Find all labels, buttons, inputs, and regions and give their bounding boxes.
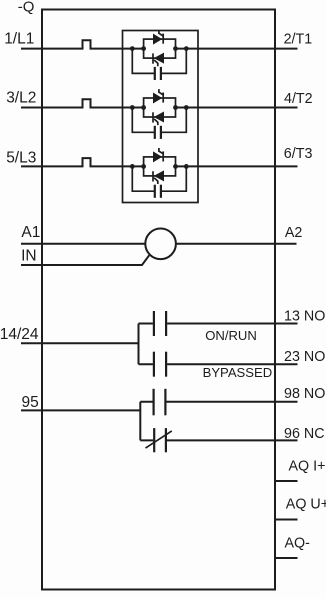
svg-text:23 NO: 23 NO bbox=[284, 349, 325, 365]
svg-text:6/T3: 6/T3 bbox=[284, 146, 313, 162]
svg-text:3/L2: 3/L2 bbox=[6, 90, 36, 107]
svg-text:2/T1: 2/T1 bbox=[284, 31, 313, 47]
svg-text:A1: A1 bbox=[21, 224, 40, 241]
svg-text:14/24: 14/24 bbox=[0, 326, 39, 343]
svg-text:AQ I+: AQ I+ bbox=[289, 459, 326, 475]
svg-text:ON/RUN: ON/RUN bbox=[205, 328, 257, 343]
svg-text:IN: IN bbox=[21, 247, 36, 264]
svg-text:A2: A2 bbox=[285, 225, 303, 241]
svg-text:96 NC: 96 NC bbox=[284, 426, 325, 442]
svg-text:98 NO: 98 NO bbox=[284, 386, 325, 402]
svg-text:AQ-: AQ- bbox=[285, 536, 311, 552]
svg-text:AQ U+: AQ U+ bbox=[286, 497, 326, 513]
svg-text:-Q: -Q bbox=[18, 0, 35, 16]
svg-text:4/T2: 4/T2 bbox=[284, 91, 313, 107]
svg-text:5/L3: 5/L3 bbox=[6, 149, 36, 166]
svg-text:BYPASSED: BYPASSED bbox=[203, 365, 273, 380]
svg-text:95: 95 bbox=[22, 394, 39, 411]
svg-text:13 NO: 13 NO bbox=[284, 309, 325, 325]
svg-text:1/L1: 1/L1 bbox=[4, 30, 34, 47]
